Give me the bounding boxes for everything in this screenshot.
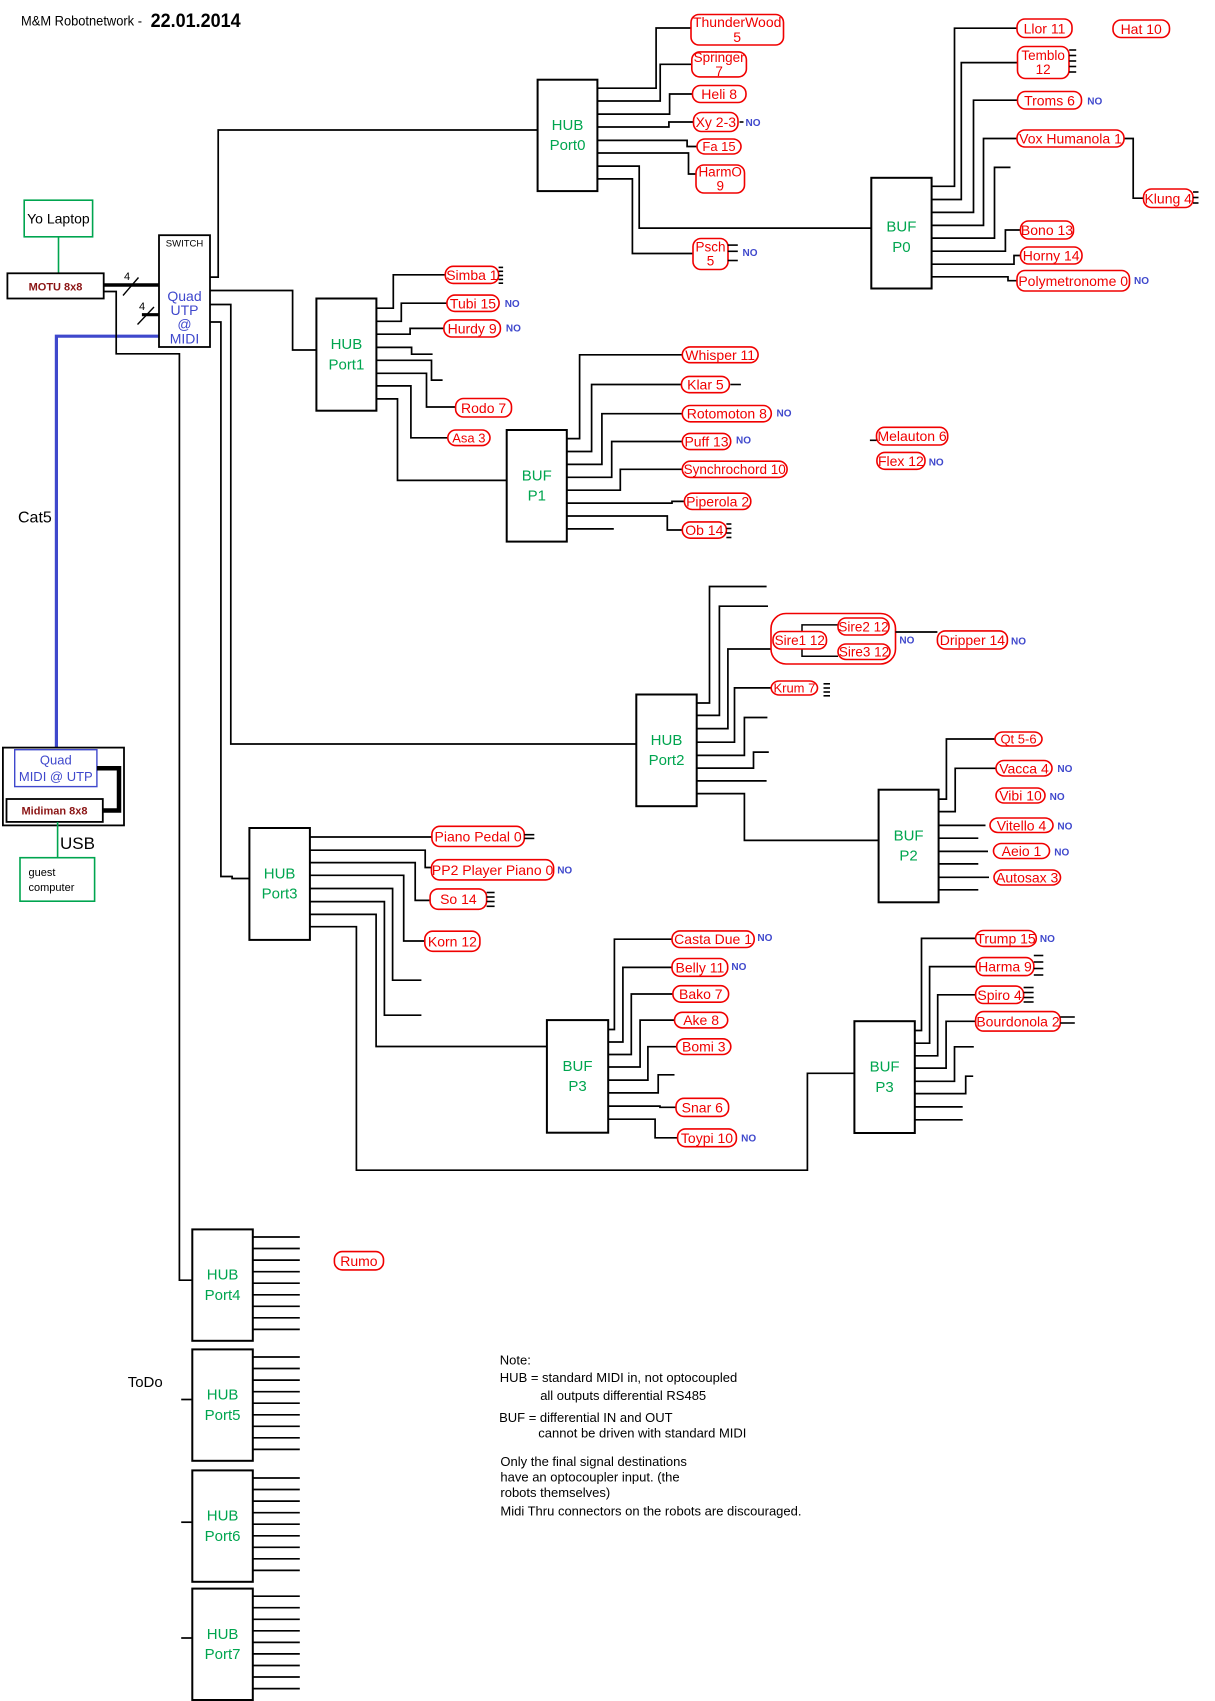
svg-text:Spiro 4: Spiro 4 — [977, 987, 1022, 1003]
svg-text:Rumo: Rumo — [340, 1253, 378, 1269]
wire HUB Port2 to Sire1 12 — [697, 649, 771, 729]
svg-text:NO: NO — [1057, 822, 1072, 833]
wire HUB Port2 spare stub a — [697, 587, 767, 704]
label Tubi 15 — [447, 295, 520, 311]
svg-text:Toypi 10: Toypi 10 — [681, 1130, 733, 1146]
wire HUB Port0 to Fa 15 — [597, 140, 697, 146]
svg-text:BUF: BUF — [563, 1058, 593, 1075]
wire BUF P1 to Puff 13 — [567, 442, 683, 478]
wire BUF P0 to Troms 6 — [932, 100, 1018, 212]
svg-text:Bourdonola 2: Bourdonola 2 — [976, 1013, 1060, 1029]
text note line 5 — [538, 1426, 746, 1441]
label Vacca 4 — [996, 760, 1073, 776]
label Ob 14 — [682, 522, 731, 538]
svg-text:Tubi 15: Tubi 15 — [450, 295, 496, 311]
svg-text:Cat5: Cat5 — [18, 510, 52, 527]
wire BUF P0 to Temblo 12 — [932, 63, 1018, 200]
svg-text:4: 4 — [139, 301, 145, 313]
svg-text:Port6: Port6 — [205, 1528, 241, 1545]
label Synchrochord 10 — [682, 461, 787, 477]
label Bourdonola 2 — [976, 1012, 1075, 1032]
svg-text:SWITCH: SWITCH — [166, 239, 204, 250]
svg-text:NO: NO — [929, 458, 944, 469]
box guest computer — [20, 858, 95, 902]
wire BUF P1 to Ob 14 — [567, 516, 683, 530]
wire HUB Port0 to BUF P0 — [597, 166, 871, 228]
svg-text:Springer: Springer — [694, 50, 746, 65]
svg-text:Sire1 12: Sire1 12 — [775, 633, 825, 648]
wire HUB Port3 spare stub b — [310, 902, 422, 1016]
label Bomi 3 — [677, 1039, 731, 1055]
label Troms 6 — [1018, 92, 1103, 110]
wire HUB Port1 spare stub a — [376, 347, 432, 354]
label Piperola 2 — [684, 493, 750, 509]
svg-text:Piperola 2: Piperola 2 — [686, 493, 749, 509]
cable Cat5 (blue) SWITCH to Quad MIDI@UTP — [56, 336, 159, 750]
svg-text:Autosax 3: Autosax 3 — [996, 870, 1058, 886]
svg-text:Puff 13: Puff 13 — [684, 434, 728, 450]
svg-text:Llor 11: Llor 11 — [1024, 20, 1066, 36]
label Vitello 4 — [990, 817, 1073, 833]
label Heli 8 — [693, 86, 747, 103]
box BUF P1 — [507, 430, 567, 542]
svg-text:PP2 Player Piano 0: PP2 Player Piano 0 — [432, 862, 554, 878]
svg-text:NO: NO — [1087, 96, 1102, 107]
svg-text:ToDo: ToDo — [128, 1374, 163, 1391]
svg-text:robots themselves): robots themselves) — [500, 1485, 610, 1500]
text title M&M Robotnetwork — [21, 12, 142, 28]
svg-text:NO: NO — [736, 436, 751, 447]
box BUF P3 right — [854, 1021, 914, 1133]
label Belly 11 — [672, 959, 747, 977]
wire Sire1 to Sire3 link — [802, 649, 838, 656]
svg-text:M&M Robotnetwork -: M&M Robotnetwork - — [21, 12, 142, 28]
wire BUF P3L to Belly 11 — [608, 967, 672, 1042]
box MOTU 8x8 — [7, 273, 103, 298]
label Rotomoton 8 — [682, 406, 791, 422]
box HUB Port7 — [192, 1589, 253, 1700]
svg-text:HUB: HUB — [207, 1626, 239, 1643]
label Qt 5-6 — [995, 732, 1042, 747]
svg-text:Vacca 4: Vacca 4 — [999, 760, 1049, 776]
text note line 6 — [500, 1454, 687, 1469]
label PP2 Player Piano 0 — [432, 860, 573, 880]
wire HUB Port0 to Psch 5 — [597, 179, 693, 254]
wire HUB Port6 input stub — [181, 1521, 192, 1523]
wire SWITCH to HUB Port0 — [210, 130, 538, 277]
svg-text:Harma 9: Harma 9 — [978, 959, 1032, 975]
svg-text:Simba 1: Simba 1 — [446, 267, 498, 283]
svg-text:P3: P3 — [568, 1078, 586, 1095]
label Klung 4 — [1144, 189, 1199, 208]
svg-text:USB: USB — [60, 834, 95, 853]
wire BUF P1 to Whisper 11 — [567, 355, 683, 439]
svg-text:NO: NO — [505, 299, 520, 310]
bus stub at SWITCH (4 wires) — [138, 301, 160, 325]
text note line 8 — [500, 1485, 610, 1500]
wire HUB Port0 to HarmO 9 — [597, 153, 696, 174]
svg-text:Rodo 7: Rodo 7 — [461, 400, 506, 416]
svg-text:Dripper 14: Dripper 14 — [940, 632, 1006, 648]
svg-text:Vox Humanola 1: Vox Humanola 1 — [1019, 131, 1122, 147]
wire BUF P2 to Aeio 1 — [939, 850, 988, 852]
label Psch 5 — [693, 239, 758, 270]
wire BUF P2 spare stub b — [939, 863, 979, 865]
label Piano Pedal 0 — [432, 826, 534, 846]
label ThunderWood 5 — [691, 14, 784, 45]
label Korn 12 — [425, 931, 480, 951]
svg-text:HUB: HUB — [207, 1508, 239, 1525]
label Whisper 11 — [682, 347, 758, 363]
svg-text:Midi Thru connectors on the ro: Midi Thru connectors on the robots are d… — [500, 1503, 801, 1518]
label Puff 13 — [682, 433, 751, 449]
svg-text:Melauton 6: Melauton 6 — [877, 428, 946, 444]
svg-text:7: 7 — [715, 64, 723, 79]
box HUB Port0 — [538, 80, 598, 191]
svg-text:P1: P1 — [528, 488, 546, 505]
wire HUB Port3 to PP2 Player Piano 0 — [310, 850, 432, 867]
wire HUB Port1 to Tubi 15 — [376, 303, 447, 321]
text USB — [60, 834, 95, 853]
svg-text:Port2: Port2 — [649, 752, 685, 769]
svg-text:Korn 12: Korn 12 — [428, 933, 477, 949]
label Vox Humanola 1 — [1017, 130, 1124, 147]
box BUF P0 — [871, 178, 931, 289]
svg-text:NO: NO — [1057, 764, 1072, 775]
wire HUB Port0 to ThunderWood 5 — [597, 28, 691, 88]
box HUB Port2 — [636, 695, 696, 807]
wire BUF P3L spare stub — [608, 1075, 674, 1093]
wire HUB Port0 to Springer 7 — [597, 64, 691, 101]
svg-text:Trump 15: Trump 15 — [976, 931, 1036, 947]
label Xy 2-3 — [694, 113, 761, 132]
box BUF P2 — [879, 790, 939, 903]
wire HUB Port1 to Simba 1 — [376, 275, 445, 308]
label Harma 9 — [976, 956, 1043, 976]
label Sire2 12 — [838, 618, 889, 635]
box Yo Laptop — [24, 200, 92, 237]
svg-text:Fa 15: Fa 15 — [702, 139, 735, 154]
label Hurdy 9 — [444, 320, 521, 337]
svg-text:NO: NO — [1134, 276, 1149, 287]
wire HUB Port2 spare stub b — [697, 606, 768, 715]
svg-text:Klar 5: Klar 5 — [687, 377, 724, 393]
wire BUF P3R to Harma 9 — [915, 967, 976, 1044]
wire BUF P1 to Rotomoton 8 — [567, 414, 683, 465]
wire HUB Port1 spare stub b — [376, 360, 442, 380]
wire Vox Humanola 1 to Klung 4 — [1124, 139, 1144, 199]
wire HUB Port0 to Xy 2-3 — [597, 122, 693, 127]
wire HUB Port2 spare stub d — [697, 752, 769, 768]
svg-text:Yo Laptop: Yo Laptop — [27, 211, 90, 227]
svg-text:Port4: Port4 — [205, 1287, 241, 1304]
text date 22.01.2014 — [151, 11, 241, 32]
label Snar 6 — [676, 1098, 729, 1116]
svg-text:Port7: Port7 — [205, 1646, 241, 1663]
wire HUB Port3 to BUF P3 left — [310, 914, 547, 1046]
wire Midiman to guest computer (green) — [57, 822, 59, 858]
wire HUB Port3 to So 14 — [310, 863, 430, 901]
wire HUB Port2 spare stub c — [697, 718, 768, 756]
svg-text:Piano Pedal 0: Piano Pedal 0 — [435, 828, 522, 844]
svg-text:NO: NO — [1050, 792, 1065, 803]
svg-text:HUB: HUB — [331, 336, 363, 353]
wire HUB Port0 to Heli 8 — [597, 94, 692, 114]
label Aeio 1 — [994, 843, 1070, 859]
svg-text:Ake 8: Ake 8 — [683, 1012, 719, 1028]
label Hat 10 — [1113, 20, 1170, 38]
svg-text:MOTU 8x8: MOTU 8x8 — [29, 281, 83, 293]
svg-text:BUF: BUF — [522, 467, 552, 484]
svg-text:Hurdy 9: Hurdy 9 — [448, 321, 497, 337]
label Trump 15 — [976, 931, 1056, 947]
svg-text:Vitello 4: Vitello 4 — [997, 817, 1047, 833]
wire BUF P3R to Spiro 4 — [915, 995, 976, 1056]
svg-text:Rotomoton 8: Rotomoton 8 — [687, 406, 767, 422]
wire BUF P1 to Synchrochord 10 — [567, 469, 683, 490]
label Toypi 10 — [678, 1129, 757, 1147]
label Vibi 10 — [996, 788, 1065, 804]
wire BUF P2 to Vacca 4 — [939, 768, 996, 811]
svg-text:NO: NO — [1011, 636, 1026, 647]
svg-text:Note:: Note: — [500, 1353, 531, 1368]
wire BUF P0 to Polymetronome 0 — [932, 277, 1017, 281]
label Rumo — [334, 1252, 383, 1270]
box Quad MIDI @ UTP — [15, 750, 97, 787]
label Krum 7 — [771, 681, 830, 696]
wire BUF P1 spare stub — [567, 528, 614, 530]
svg-text:NO: NO — [777, 409, 792, 420]
wire HUB Port4 output stubs — [253, 1237, 300, 1329]
wire BUF P0 to Bono 13 — [932, 230, 1021, 251]
svg-text:have an optocoupler input. (th: have an optocoupler input. (the — [500, 1470, 679, 1485]
svg-text:all outputs differential RS485: all outputs differential RS485 — [540, 1388, 706, 1403]
label Rodo 7 — [456, 399, 512, 418]
wire BUF P0 spare stub — [932, 167, 1011, 238]
svg-text:NO: NO — [506, 323, 521, 334]
svg-text:P0: P0 — [892, 239, 910, 256]
svg-text:Klung 4: Klung 4 — [1144, 190, 1192, 206]
svg-text:BUF: BUF — [894, 828, 924, 845]
svg-text:Whisper 11: Whisper 11 — [685, 347, 755, 363]
wire Quad to Midiman (thick) — [97, 768, 119, 810]
wire HUB Port5 output stubs — [253, 1357, 300, 1449]
box HUB Port3 — [249, 828, 310, 940]
wire BUF P1 to Piperola 2 — [567, 501, 685, 503]
label Casta Due 1 — [672, 931, 773, 948]
text note line 4 — [499, 1410, 673, 1425]
svg-text:So 14: So 14 — [440, 891, 477, 907]
wire BUF P2 to Autosax 3 — [939, 876, 989, 878]
box Quad MIDI @ UTP + Midiman 8x8 outer — [3, 748, 124, 826]
svg-text:Quad: Quad — [40, 753, 72, 768]
svg-text:Horny 14: Horny 14 — [1023, 248, 1080, 264]
svg-text:12: 12 — [1036, 62, 1051, 77]
svg-text:HUB: HUB — [207, 1387, 239, 1404]
svg-text:Sire3 12: Sire3 12 — [839, 645, 889, 660]
text note line 3 — [540, 1388, 706, 1403]
text Cat5 — [18, 510, 52, 527]
svg-text:Bako 7: Bako 7 — [679, 986, 723, 1002]
label Flex 12 — [877, 452, 944, 469]
svg-text:Psch: Psch — [695, 239, 725, 254]
svg-text:Krum 7: Krum 7 — [773, 681, 815, 696]
svg-text:22.01.2014: 22.01.2014 — [151, 11, 241, 32]
svg-text:Snar 6: Snar 6 — [682, 1099, 723, 1115]
svg-text:BUF = differential IN and OUT: BUF = differential IN and OUT — [499, 1410, 673, 1425]
label Temblo 12 — [1018, 47, 1077, 79]
wire HUB Port1 to BUF P1 — [376, 399, 506, 481]
wire SWITCH to HUB Port1 — [210, 291, 317, 351]
wire BUF P3R to Trump 15 — [915, 938, 976, 1030]
label Dripper 14 — [937, 631, 1026, 649]
wire BUF P3R to Bourdonola 2 — [915, 1021, 976, 1068]
label Ake 8 — [675, 1012, 728, 1028]
label Bako 7 — [673, 986, 729, 1003]
svg-text:Asa 3: Asa 3 — [452, 431, 485, 446]
svg-text:Qt 5-6: Qt 5-6 — [1000, 732, 1036, 747]
box HUB Port1 — [316, 299, 376, 411]
wire HUB Port1 to Asa 3 — [376, 386, 447, 438]
wire HUB Port3 to Korn 12 — [310, 875, 425, 941]
wire HUB Port2 to Krum 7 — [697, 688, 772, 742]
text note line 2 — [500, 1370, 737, 1385]
svg-text:Port0: Port0 — [550, 137, 586, 154]
svg-text:Casta Due 1: Casta Due 1 — [674, 931, 752, 947]
label Simba 1 — [445, 266, 503, 283]
wire HUB Port5 input stub — [181, 1399, 192, 1401]
bus MOTU to SWITCH (4 wires) — [104, 271, 159, 296]
svg-text:Ob 14: Ob 14 — [685, 522, 723, 538]
svg-text:Vibi 10: Vibi 10 — [999, 788, 1042, 804]
svg-text:MIDI @ UTP: MIDI @ UTP — [19, 769, 93, 784]
wire BUF P0 to Llor 11 — [932, 28, 1017, 186]
svg-text:Bomi 3: Bomi 3 — [682, 1039, 726, 1055]
svg-text:5: 5 — [733, 29, 741, 45]
svg-text:Port1: Port1 — [328, 356, 364, 373]
svg-text:HUB = standard MIDI in, not op: HUB = standard MIDI in, not optocoupled — [500, 1370, 737, 1385]
svg-text:Aeio 1: Aeio 1 — [1002, 843, 1042, 859]
svg-text:P3: P3 — [875, 1079, 893, 1096]
svg-text:cannot be driven with standard: cannot be driven with standard MIDI — [538, 1426, 746, 1441]
wire BUF P3L to Bomi 3 — [608, 1047, 677, 1080]
wire Sire1 to Sire2 link — [802, 625, 838, 632]
wire BUF P2 spare stub c — [939, 889, 979, 891]
wire HUB Port7 output stubs — [253, 1596, 300, 1688]
svg-text:MIDI: MIDI — [170, 331, 200, 347]
wire HUB Port2 spare stub e — [697, 780, 767, 782]
wire BUF P3L to Bako 7 — [608, 994, 673, 1055]
wire BUF P3L to Ake 8 — [608, 1020, 674, 1067]
svg-text:BUF: BUF — [870, 1059, 900, 1076]
wire HUB Port3 to BUF P3 right — [310, 927, 855, 1170]
label Fa 15 — [697, 139, 741, 154]
svg-text:Belly 11: Belly 11 — [676, 959, 725, 975]
label Llor 11 — [1017, 19, 1072, 38]
wire BUF P3L to Snar 6 — [608, 1106, 676, 1107]
wire BUF P3R spare stub b — [915, 1076, 973, 1093]
svg-text:Only the final signal destinat: Only the final signal destinations — [500, 1454, 687, 1469]
wire HUB Port7 input stub — [181, 1637, 192, 1639]
text note line 9 — [500, 1503, 801, 1518]
box Midiman 8x8 — [7, 799, 103, 822]
wire Yo Laptop to MOTU 8x8 (green) — [58, 237, 60, 273]
svg-text:HUB: HUB — [207, 1267, 239, 1284]
label Autosax 3 — [994, 870, 1061, 886]
box HUB Port6 — [192, 1470, 253, 1581]
svg-text:HUB: HUB — [651, 732, 683, 749]
svg-text:NO: NO — [757, 933, 772, 944]
label Polymetronome 0 — [1017, 271, 1149, 292]
svg-text:Midiman 8x8: Midiman 8x8 — [21, 806, 87, 818]
svg-text:NO: NO — [743, 248, 758, 259]
label Asa 3 — [448, 430, 490, 446]
text ToDo — [128, 1374, 163, 1391]
svg-text:NO: NO — [741, 1134, 756, 1145]
svg-text:NO: NO — [899, 636, 914, 647]
label So 14 — [430, 889, 495, 909]
svg-text:BUF: BUF — [886, 219, 916, 236]
box HUB Port4 — [192, 1229, 253, 1340]
label Bono 13 — [1021, 221, 1074, 239]
box HUB Port5 — [192, 1349, 253, 1460]
wire BUF P3L to Casta Due 1 — [608, 939, 672, 1029]
wire BUF P2 to Qt 5-6 — [939, 739, 995, 799]
box SWITCH / Quad UTP @ MIDI — [159, 235, 210, 347]
label Springer 7 — [692, 50, 747, 79]
wire HUB Port1 to Rodo 7 — [376, 373, 455, 407]
svg-text:NO: NO — [746, 118, 761, 129]
svg-text:Hat 10: Hat 10 — [1121, 21, 1162, 37]
svg-text:P2: P2 — [899, 848, 917, 865]
svg-text:guest: guest — [29, 867, 56, 879]
svg-text:Synchrochord 10: Synchrochord 10 — [684, 462, 786, 477]
label Melauton 6 — [870, 427, 948, 445]
svg-text:HUB: HUB — [552, 117, 584, 134]
label HarmO 9 — [696, 164, 745, 193]
svg-text:NO: NO — [557, 866, 572, 877]
svg-text:NO: NO — [1054, 848, 1069, 859]
label Horny 14 — [1021, 247, 1083, 264]
wire BUF P3R spare stub d — [915, 1119, 963, 1121]
wire MOTU to HUB Port4 trunk — [104, 292, 193, 1281]
label Spiro 4 — [976, 986, 1034, 1003]
svg-text:Port5: Port5 — [205, 1407, 241, 1424]
wire HUB Port2 to BUF P2 — [697, 794, 879, 841]
text note line 1 — [500, 1353, 531, 1368]
svg-text:ThunderWood: ThunderWood — [693, 14, 781, 30]
wire BUF P3R spare stub c — [915, 1106, 963, 1108]
node Sire group outline — [771, 614, 896, 665]
text note line 7 — [500, 1470, 679, 1485]
svg-text:Heli 8: Heli 8 — [701, 86, 737, 102]
svg-text:Xy 2-3: Xy 2-3 — [696, 114, 737, 130]
svg-text:NO: NO — [1040, 934, 1055, 945]
wire BUF P0 to Vox Humanola 1 — [932, 139, 1017, 226]
wire HUB Port1 to Hurdy 9 — [376, 328, 444, 334]
svg-text:Temblo: Temblo — [1021, 48, 1065, 63]
svg-text:9: 9 — [716, 179, 724, 194]
wire HUB Port3 spare stub a — [310, 889, 422, 981]
wire BUF P0 to Horny 14 — [932, 256, 1021, 265]
wire Sire group to Dripper 14 — [896, 631, 938, 633]
svg-text:Port3: Port3 — [262, 886, 298, 903]
label Klar 5 — [681, 376, 741, 392]
wire BUF P3L to Toypi 10 — [608, 1119, 677, 1138]
svg-text:NO: NO — [731, 962, 746, 973]
svg-text:Flex 12: Flex 12 — [878, 453, 924, 469]
label Sire1 12 — [773, 632, 827, 650]
